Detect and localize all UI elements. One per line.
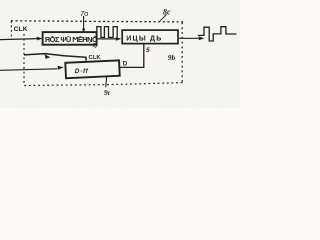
wire counter to selector (net with waveform) (97, 38, 118, 40)
svg-text:ИЦЫ ДЬ: ИЦЫ ДЬ (126, 35, 162, 42)
wire CLK branch to D-FF clock (24, 54, 86, 61)
leader tick for label 91 (105, 77, 108, 88)
svg-text:7o: 7o (80, 9, 88, 18)
svg-text:CLK: CLK (14, 26, 28, 33)
dashed enclosure right edge (181, 23, 183, 83)
waveform pulses (clock burst) (97, 27, 117, 38)
arrowhead into selector (116, 37, 122, 41)
D flip-flop box (65, 60, 119, 78)
svg-text:ЯŌΣ ΨŪ ϺĒĦŅŌ: ЯŌΣ ΨŪ ϺĒĦŅŌ (45, 35, 98, 44)
arrowhead of output (199, 36, 205, 40)
arrowhead into counter box (37, 37, 43, 41)
label 8c leader line (160, 15, 167, 22)
svg-text:D·ff: D·ff (75, 68, 89, 75)
wire from node 70 into counter top (83, 16, 85, 32)
arrowhead into D-FF (57, 66, 63, 70)
dashed enclosure 8c top edge (11, 21, 183, 22)
output waveform (198, 27, 237, 41)
svg-text:D: D (123, 60, 128, 67)
svg-text:CLK: CLK (89, 55, 102, 61)
svg-text:9ı: 9ı (104, 88, 110, 97)
wire D-FF output to selector (net 5) (120, 44, 144, 68)
svg-text:9b: 9b (168, 53, 176, 62)
text labels (14, 8, 176, 98)
arrowhead of 70 wire (82, 29, 85, 33)
counter box (left block) (43, 32, 97, 45)
wire selector output (net 2) (178, 37, 200, 39)
arrowhead on CLK branch (45, 54, 51, 59)
dashed enclosure left main edge (23, 34, 25, 85)
svg-text:5: 5 (146, 47, 150, 54)
wire CLK input (net 1) (0, 39, 39, 40)
svg-text:8c: 8c (163, 8, 171, 17)
dashed enclosure left upper edge (10, 21, 12, 40)
wire D input (net 3) (0, 69, 58, 71)
dashed enclosure bottom edge (24, 83, 183, 86)
selector box (right block) (122, 30, 178, 43)
